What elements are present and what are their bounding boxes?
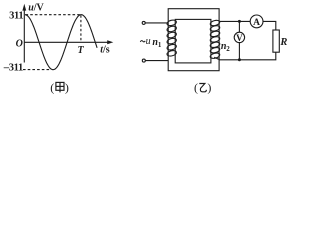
transformer core outer outline <box>168 9 219 71</box>
svg-text:R: R <box>279 37 287 48</box>
svg-text:–311: –311 <box>3 63 23 74</box>
voltage curve u(t) <box>25 15 97 70</box>
wire: voltmeter down to bottom wire <box>238 43 240 60</box>
svg-text:t/s: t/s <box>100 45 110 56</box>
AC source terminal top <box>142 21 145 24</box>
y-axis (u/V) <box>22 4 26 63</box>
wire: bottom terminal to primary coil <box>145 60 168 62</box>
voltmeter V <box>234 32 244 43</box>
svg-text:T: T <box>78 45 85 56</box>
svg-text:V: V <box>236 33 243 43</box>
wire: junction down to voltmeter <box>238 21 240 32</box>
wire: secondary bottom lead <box>214 52 276 60</box>
caption (jia) <box>50 81 69 95</box>
resistor R <box>273 30 279 52</box>
svg-text:A: A <box>253 18 260 28</box>
svg-text:(: ( <box>194 81 198 95</box>
svg-text:311: 311 <box>9 11 23 22</box>
wire: top terminal to primary coil <box>145 22 168 24</box>
x-axis (t/s) <box>24 40 113 44</box>
dashed vertical at t=T <box>80 15 82 41</box>
caption (yi) <box>194 81 211 95</box>
svg-text:): ) <box>65 81 69 95</box>
svg-text:u: u <box>146 36 151 47</box>
transformer core inner outline <box>175 19 211 63</box>
svg-text:u/V: u/V <box>28 3 44 14</box>
dashed line at -311 <box>23 69 51 71</box>
AC source terminal bottom <box>142 59 145 62</box>
dashed line at +311 <box>26 14 82 16</box>
ammeter A <box>250 15 263 28</box>
primary winding <box>166 19 177 57</box>
label ~u <box>140 41 145 42</box>
svg-text:): ) <box>207 81 211 95</box>
wire: secondary top to junction and ammeter <box>219 20 250 22</box>
junction node bottom <box>238 58 241 61</box>
svg-text:(: ( <box>50 81 54 95</box>
svg-text:1: 1 <box>158 41 162 49</box>
svg-text:O: O <box>16 38 23 49</box>
secondary winding <box>210 19 221 59</box>
svg-text:2: 2 <box>226 45 230 53</box>
junction node top <box>238 20 241 23</box>
wire: ammeter to top right corner <box>263 21 276 30</box>
